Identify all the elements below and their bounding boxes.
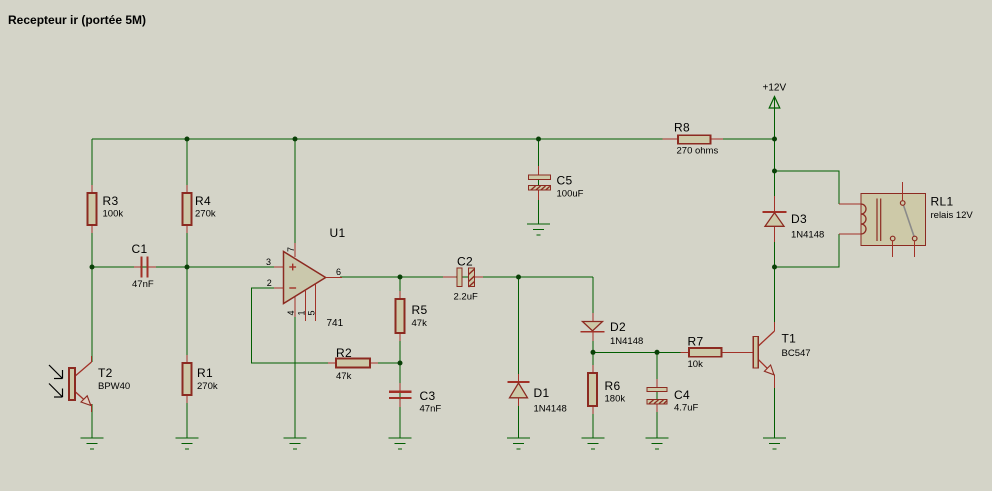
U1 pin1 stub bbox=[305, 290, 307, 321]
wire C5 stem bbox=[538, 139, 540, 224]
svg-text:Recepteur ir (portée 5M): Recepteur ir (portée 5M) bbox=[8, 13, 146, 27]
wire C4 branch bbox=[656, 352, 658, 438]
svg-text:4: 4 bbox=[286, 310, 296, 315]
RL1 bottom pin 2 bbox=[914, 241, 916, 257]
RL1 core bbox=[876, 199, 878, 242]
svg-text:1N4148: 1N4148 bbox=[534, 404, 567, 415]
svg-text:R5: R5 bbox=[412, 303, 428, 317]
wire +12V vertical to collector bbox=[774, 139, 776, 323]
wire D2 branch down bbox=[592, 277, 594, 352]
resistor R4 bbox=[183, 185, 216, 233]
phototransistor T2 bbox=[49, 356, 130, 412]
svg-text:R2: R2 bbox=[336, 346, 352, 360]
ground T2 bbox=[81, 438, 104, 449]
svg-text:C2: C2 bbox=[457, 255, 473, 269]
node feedback / R2 R5 C3 bbox=[398, 361, 403, 366]
RL1 common contact bbox=[900, 201, 905, 206]
wire op-amp pin4 to ground bbox=[294, 297, 296, 438]
svg-text:R4: R4 bbox=[195, 194, 211, 208]
svg-text:BPW40: BPW40 bbox=[98, 381, 130, 392]
svg-text:3: 3 bbox=[266, 257, 271, 267]
wire output row y277 bbox=[340, 276, 593, 278]
svg-text:270 ohms: 270 ohms bbox=[677, 146, 719, 157]
svg-text:1N4148: 1N4148 bbox=[610, 336, 643, 347]
capacitor C4 bbox=[646, 379, 698, 414]
ground op-amp pin4 bbox=[284, 438, 307, 449]
U1 plus sign bbox=[289, 266, 296, 268]
svg-text:T2: T2 bbox=[98, 366, 113, 380]
svg-text:180k: 180k bbox=[605, 394, 626, 405]
RL1 common pin bbox=[902, 182, 904, 201]
resistor R8 bbox=[663, 121, 724, 157]
svg-text:R6: R6 bbox=[605, 379, 621, 393]
capacitor C1 bbox=[132, 242, 157, 290]
RL1 coil bbox=[861, 204, 866, 234]
svg-text:1: 1 bbox=[297, 310, 307, 315]
ground T1 bbox=[763, 438, 786, 449]
wire D1 branch bbox=[518, 277, 520, 438]
svg-text:47nF: 47nF bbox=[420, 404, 442, 415]
svg-text:D3: D3 bbox=[791, 212, 807, 226]
node output / R5 bbox=[398, 275, 403, 280]
wire top rail bbox=[92, 138, 775, 140]
U1 pin7 stub bbox=[294, 243, 296, 257]
wire input row y267 bbox=[92, 266, 283, 268]
svg-text:270k: 270k bbox=[197, 381, 218, 392]
diode D1 bbox=[508, 374, 567, 415]
wire C3 branch bbox=[399, 363, 401, 438]
resistor R7 bbox=[681, 335, 753, 371]
svg-text:T1: T1 bbox=[782, 332, 797, 346]
svg-text:47k: 47k bbox=[412, 318, 428, 329]
ground D1 bbox=[507, 438, 530, 449]
diode D2 bbox=[581, 313, 644, 347]
svg-text:BC547: BC547 bbox=[782, 348, 811, 359]
relay RL1 bbox=[839, 182, 973, 257]
svg-text:+12V: +12V bbox=[763, 83, 787, 94]
node top rail / pin7 bbox=[293, 137, 298, 142]
RL1 NO contact bbox=[912, 236, 917, 241]
svg-text:47nF: 47nF bbox=[132, 279, 154, 290]
resistor R5 bbox=[396, 291, 428, 341]
svg-text:5: 5 bbox=[307, 310, 317, 315]
transistor T1 bbox=[753, 322, 810, 388]
svg-text:100uF: 100uF bbox=[557, 189, 584, 200]
wire R4 vertical x187 bbox=[186, 139, 188, 438]
resistor R2 bbox=[328, 346, 378, 382]
RL1 switch blade bbox=[904, 205, 915, 236]
capacitor C2 bbox=[443, 255, 483, 303]
svg-text:2: 2 bbox=[267, 278, 272, 288]
svg-text:C1: C1 bbox=[132, 242, 148, 256]
svg-text:1N4148: 1N4148 bbox=[791, 230, 824, 241]
wire T2 collector vertical bbox=[91, 267, 93, 362]
wire R6 branch bbox=[592, 352, 594, 438]
node top rail / +12V bbox=[772, 137, 777, 142]
node D2 R6 bbox=[591, 350, 596, 355]
svg-text:RL1: RL1 bbox=[931, 195, 954, 209]
svg-text:U1: U1 bbox=[330, 226, 346, 240]
RL1 bottom pin 1 bbox=[892, 241, 894, 257]
U1 pin5 stub bbox=[315, 284, 317, 322]
node input row / R4 bbox=[185, 265, 190, 270]
svg-text:C4: C4 bbox=[674, 388, 690, 402]
svg-text:2.2uF: 2.2uF bbox=[454, 292, 478, 303]
svg-text:741: 741 bbox=[327, 318, 344, 329]
ground C4 bbox=[646, 438, 669, 449]
wire relay coil bottom link bbox=[775, 234, 840, 267]
node output / D1 bbox=[516, 275, 521, 280]
power +12V symbol bbox=[769, 97, 780, 109]
wire T1 emitter to ground bbox=[774, 387, 776, 438]
resistor R1 bbox=[183, 355, 218, 403]
diode D3 bbox=[763, 196, 825, 242]
op-amp U1 bbox=[266, 226, 345, 329]
svg-text:C3: C3 bbox=[420, 389, 436, 403]
wire op-amp pin7 vertical bbox=[294, 139, 296, 256]
capacitor C5 bbox=[528, 166, 584, 200]
svg-text:4.7uF: 4.7uF bbox=[674, 403, 698, 414]
ground C3 bbox=[389, 438, 412, 449]
ground C5 bbox=[527, 224, 550, 235]
node C4 R7 bbox=[655, 350, 660, 355]
U1 minus sign bbox=[289, 287, 296, 289]
svg-text:6: 6 bbox=[336, 267, 341, 277]
svg-text:D1: D1 bbox=[534, 386, 550, 400]
svg-text:10k: 10k bbox=[688, 359, 704, 370]
node top rail / C5 bbox=[536, 137, 541, 142]
resistor R3 bbox=[88, 185, 124, 233]
U1 pin3 stub bbox=[274, 266, 284, 268]
svg-text:D2: D2 bbox=[610, 320, 626, 334]
wire node row y352 bbox=[593, 351, 745, 353]
svg-text:R7: R7 bbox=[688, 335, 704, 349]
RL1 body bbox=[861, 194, 926, 246]
svg-text:47k: 47k bbox=[336, 371, 352, 382]
svg-text:100k: 100k bbox=[103, 209, 124, 220]
U1 pin4 stub bbox=[294, 297, 296, 317]
node top rail / R4 bbox=[185, 137, 190, 142]
resistor R6 bbox=[588, 365, 625, 414]
ground R1 bbox=[176, 438, 199, 449]
ground R6 bbox=[582, 438, 605, 449]
wire +12V stem bbox=[774, 96, 776, 139]
T2 light arrow 2 bbox=[49, 384, 62, 397]
node D3 top / relay bbox=[772, 169, 777, 174]
wire T2 emitter vertical bbox=[91, 404, 93, 438]
RL1 coil pin stubs bbox=[839, 203, 861, 205]
T2 light arrow 1 bbox=[49, 365, 62, 378]
wire left vertical x92 bbox=[91, 139, 93, 267]
U1 pin6 stub bbox=[326, 276, 342, 278]
U1 pin2 stub bbox=[274, 287, 284, 289]
svg-text:7: 7 bbox=[286, 247, 296, 252]
wire relay coil top link bbox=[775, 171, 840, 204]
capacitor C3 bbox=[389, 383, 441, 415]
svg-text:relais 12V: relais 12V bbox=[931, 210, 974, 221]
svg-text:R3: R3 bbox=[103, 194, 119, 208]
wire R5 branch bbox=[399, 277, 401, 363]
svg-text:R8: R8 bbox=[674, 121, 690, 135]
svg-text:C5: C5 bbox=[557, 174, 573, 188]
svg-text:270k: 270k bbox=[195, 209, 216, 220]
RL1 NC contact bbox=[890, 236, 895, 241]
wire op-amp pin2 feedback loop bbox=[252, 288, 401, 363]
node D3 bottom / relay bbox=[772, 265, 777, 270]
node input row / R3 bbox=[90, 265, 95, 270]
svg-text:R1: R1 bbox=[197, 366, 213, 380]
